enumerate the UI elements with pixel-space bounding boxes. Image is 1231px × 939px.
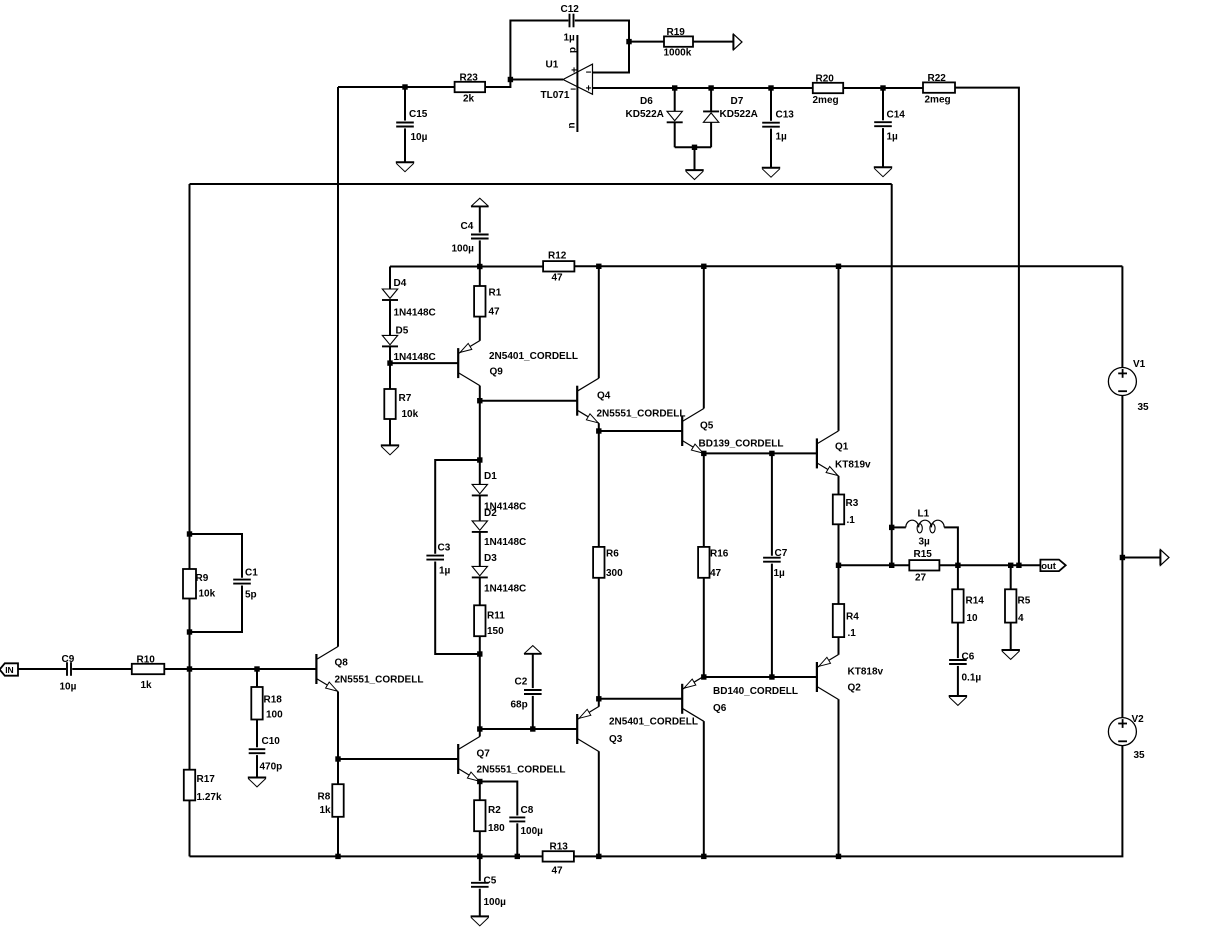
pin arrow at supply midpoint [1160,550,1169,566]
svg-text:C15: C15 [409,109,428,120]
diode D2 [472,508,526,548]
diode D1 [472,471,526,513]
wire node to Q9 base [390,362,458,364]
node C7 top [769,451,774,456]
node D6 top [672,85,677,90]
svg-text:Q2: Q2 [848,683,862,694]
svg-text:C9: C9 [62,654,75,665]
svg-text:V2: V2 [1132,714,1145,725]
wire Q7 collector vertical [479,729,481,737]
wire Q1 emitter to R3 [838,476,840,495]
node R15-L1 right [955,563,960,568]
voltage source V1 [1108,359,1149,413]
svg-text:D1: D1 [484,471,497,482]
svg-text:47: 47 [489,307,501,318]
svg-text:1k: 1k [320,805,332,816]
svg-text:R17: R17 [197,774,216,785]
svg-text:R9: R9 [196,573,209,584]
svg-text:C10: C10 [262,736,281,747]
svg-text:10µ: 10µ [411,132,428,143]
node rail-Q1 collector [836,264,841,269]
wire R10 to Q8 base [164,668,316,670]
wire C12 to op-amp inverting input [575,21,629,73]
wire down to C3 node [479,401,481,460]
capacitor C2 [511,677,542,711]
svg-text:R10: R10 [137,655,156,666]
svg-text:Q1: Q1 [835,442,849,453]
svg-text:TL071: TL071 [541,90,570,101]
node R9-C1 top [187,531,192,536]
svg-text:D5: D5 [396,326,409,337]
svg-text:2N5401_CORDELL: 2N5401_CORDELL [609,717,698,728]
svg-text:C14: C14 [887,110,906,121]
wire Q8 emitter vertical [337,692,339,760]
svg-text:10k: 10k [199,589,216,600]
diode D6 [626,96,683,122]
svg-text:470p: 470p [260,762,283,773]
svg-text:R16: R16 [710,549,729,560]
svg-text:.1: .1 [848,628,857,639]
svg-text:R3: R3 [846,498,859,509]
svg-text:1.27k: 1.27k [197,792,222,803]
resistor R8 [318,784,344,817]
wire op-amp inverting input [510,79,563,81]
wire diode pair to ground [694,147,696,169]
node Q6 emitter [701,674,706,679]
wire Q7 emitter to C8 [480,782,518,816]
power arrow above C4 [471,198,489,206]
node rail-Q4 collector [596,264,601,269]
wire C13 lower stem [770,129,772,168]
node D7 top [708,85,713,90]
capacitor C7 [763,548,788,579]
wire R1 to Q9 emitter [479,317,481,341]
wire R7 to ground [389,419,391,445]
svg-text:47: 47 [710,568,722,579]
svg-text:100µ: 100µ [452,244,475,255]
capacitor C14 [874,110,905,143]
wire R6 lower stem [598,578,600,699]
node R18 top [254,666,259,671]
svg-text:Q6: Q6 [713,703,727,714]
wire R1 upper stem [479,267,481,287]
wire R19 to output pin [693,41,733,43]
capacitor C13 [762,110,794,143]
svg-text:BD139_CORDELL: BD139_CORDELL [699,439,784,450]
svg-text:R5: R5 [1018,596,1031,607]
wire C1 bottom branch [190,586,243,633]
wire feedback loop up and over C12 [510,21,568,80]
wire C4 to rail [479,240,481,266]
svg-text:1000k: 1000k [664,48,692,59]
wire R4 upper stem [838,565,840,604]
wire joining D6 and D7 bottoms [675,146,711,148]
svg-text:2meg: 2meg [925,95,951,106]
wire R11 to C3 node [479,636,481,654]
svg-text:R12: R12 [548,251,567,262]
wire R6 upper stem [598,431,600,547]
svg-text:−: − [570,84,576,95]
wire Q4 collector vertical [598,266,600,378]
wire Q4 emitter to Q5 base [599,430,682,432]
transistor Q4 [577,378,685,423]
wire D5 to R7 node [389,346,391,363]
ground below C6 [949,696,967,705]
wire C14 lower stem [882,128,884,167]
voltage source V2 [1108,714,1145,761]
wire R20 to C14 [843,87,923,89]
node rail-R8 [335,854,340,859]
wire D1 anode stem [479,460,481,484]
wire D6 anode stem [674,88,676,111]
wire D6 cathode stem [674,122,676,147]
svg-text:C3: C3 [438,543,451,554]
wire mid node to pin arrow [1122,557,1160,559]
svg-text:BD140_CORDELL: BD140_CORDELL [713,686,798,697]
svg-text:D3: D3 [484,553,497,564]
wire bottom rail left of R13 [190,855,543,857]
svg-text:2N5551_CORDELL: 2N5551_CORDELL [335,675,424,686]
wire R14 upper stem [957,565,959,589]
svg-text:150: 150 [487,626,504,637]
wire R4 to Q2 emitter [838,637,840,655]
wire C8 to bottom rail [516,823,518,856]
wire R18 to C10 [256,720,258,748]
transistor Q8 [316,647,423,692]
wire Q3 emitter vertical [598,699,600,707]
svg-text:C2: C2 [515,677,528,688]
capacitor C15 [396,109,428,143]
resistor R2 [474,800,505,834]
ground below R7 [381,445,399,454]
node rail-C4 [477,264,482,269]
transistor Q3 [577,707,698,752]
wire second loop left vertical [189,184,191,534]
op-amp U1 TL071 [541,47,593,129]
wire C10 to ground [256,755,258,777]
svg-text:+: + [586,83,592,94]
transistor Q6 [682,676,798,721]
svg-text:L1: L1 [918,509,930,520]
svg-text:1µ: 1µ [774,568,786,579]
svg-text:2N5551_CORDELL: 2N5551_CORDELL [597,409,686,420]
svg-text:C12: C12 [561,4,580,15]
svg-text:C5: C5 [484,876,497,887]
svg-text:−: − [586,67,592,78]
svg-text:10: 10 [967,613,979,624]
ground below R5 [1002,650,1020,659]
node L1 left [889,525,894,530]
node at op-amp feedback jog [508,77,513,82]
svg-text:D6: D6 [640,96,653,107]
svg-text:R23: R23 [460,73,479,84]
svg-text:2k: 2k [463,94,475,105]
wire down to Q7 collector node [479,654,481,729]
diode D7 [703,96,758,122]
pin IN [0,663,18,675]
wire C2 upper stem [532,654,534,688]
resistor R3 [833,495,859,527]
svg-text:1µ: 1µ [776,132,788,143]
node C13 top [768,85,773,90]
svg-text:2N5551_CORDELL: 2N5551_CORDELL [477,765,566,776]
svg-text:C8: C8 [521,805,534,816]
svg-text:1k: 1k [141,680,153,691]
svg-text:KT819v: KT819v [835,460,871,471]
svg-text:p: p [568,47,579,53]
resistor R1 [474,286,502,318]
ground below C10 [248,778,266,787]
wire Q3 emitter node to Q6 base [599,698,682,700]
svg-text:R13: R13 [550,842,569,853]
wire D1 to D2 [479,495,481,521]
wire R7 upper stem [389,363,391,389]
node supply midpoint [1120,555,1125,560]
wire to input node [189,632,191,669]
svg-text:1µ: 1µ [564,33,576,44]
svg-text:68p: 68p [511,700,528,711]
wire Q5 emitter to Q1 base [704,452,817,454]
node C14 top [880,85,885,90]
svg-text:C13: C13 [776,110,795,121]
svg-text:R4: R4 [846,612,859,623]
wire L1 left lead [892,526,906,528]
wire R5 upper stem [1010,565,1012,589]
capacitor C4 [452,221,489,255]
wire R8 upper stem [337,759,339,784]
svg-text:100: 100 [266,710,283,721]
node Q3 emitter R6 [596,696,601,701]
node Q7 collector row left [477,726,482,731]
resistor R5 [1005,589,1031,624]
wire bottom rail right of R13 [574,745,1123,856]
svg-text:out: out [1041,561,1057,572]
node C7 bottom [769,674,774,679]
svg-text:Q8: Q8 [335,658,349,669]
wire Q5 collector vertical [703,266,705,408]
wire C15 upper stem [404,87,406,121]
wire C15 lower stem [404,128,406,161]
node Q5 emitter [701,451,706,456]
svg-text:35: 35 [1134,750,1146,761]
svg-text:Q9: Q9 [490,367,504,378]
resistor R15 [909,549,939,584]
ground below C13 [762,168,780,177]
wire Q6 collector vertical [703,721,705,856]
transistor Q9 [458,341,578,386]
diode D3 [472,553,526,595]
svg-text:R2: R2 [488,805,501,816]
resistor R13 [543,842,574,877]
wire R9 upper stem [189,534,191,569]
svg-text:1µ: 1µ [439,566,451,577]
wire R17 upper stem [189,669,191,770]
wire C5 to ground [479,889,481,916]
svg-text:10µ: 10µ [60,682,77,693]
svg-text:1N4148C: 1N4148C [484,584,526,595]
inductor L1 [906,509,944,548]
node Q4 emitter [596,428,601,433]
svg-text:R14: R14 [966,596,985,607]
resistor R11 [474,605,505,637]
capacitor C12 [561,4,580,44]
svg-text:27: 27 [915,573,927,584]
node C15 top [402,84,407,89]
resistor R7 [384,389,418,420]
wire C2 lower stem [532,696,534,729]
svg-text:1N4148C: 1N4148C [484,537,526,548]
svg-text:300: 300 [606,568,623,579]
wire R15 to out pin [939,564,1040,566]
svg-text:C1: C1 [245,568,258,579]
svg-text:KD522A: KD522A [720,109,758,120]
wire L1 right lead down [944,527,958,565]
wire left feedback loop vertical [337,87,339,647]
node input summing [187,666,192,671]
wire mid node to V2 [1121,558,1123,718]
node rail-Q2 collector [836,854,841,859]
svg-text:R7: R7 [399,393,412,404]
wire D7 cathode stem [710,88,712,111]
wire C3 top branch [435,460,480,554]
power arrow above C2 [524,646,542,654]
transistor Q7 [458,737,565,782]
wire C7 upper stem [771,453,773,555]
svg-text:R19: R19 [667,27,686,38]
svg-text:2meg: 2meg [813,95,839,106]
node C3 bottom [477,651,482,656]
svg-text:47: 47 [552,866,564,877]
svg-text:10k: 10k [402,409,419,420]
diode D5 [382,326,436,364]
svg-text:R1: R1 [489,288,502,299]
svg-text:D4: D4 [394,278,407,289]
capacitor C6 [949,652,981,684]
resistor R10 [132,655,165,692]
diode D4 [382,278,436,319]
wire C5 upper stem [479,856,481,881]
wire R22 down to out node [955,88,1019,566]
wire Q9 collector vertical [479,386,481,401]
svg-text:R8: R8 [318,792,331,803]
node R3-R4 output [836,563,841,568]
wire power arrow to C4 [479,207,481,233]
wire Q9 collector to Q4 base [480,400,577,402]
svg-text:+: + [571,65,577,76]
resistor R16 [698,547,729,579]
svg-text:5p: 5p [245,590,257,601]
svg-text:35: 35 [1138,402,1150,413]
wire D4 to D5 [389,300,391,335]
svg-text:R6: R6 [606,549,619,560]
resistor R22 [923,73,955,106]
svg-text:Q7: Q7 [477,749,491,760]
wire V1 to mid node [1121,396,1123,558]
wire Q6 emitter row to Q2 base [704,676,817,678]
wire R8 to bottom rail [337,817,339,857]
capacitor C10 [249,736,283,773]
svg-text:Q3: Q3 [609,734,623,745]
svg-text:2N5401_CORDELL: 2N5401_CORDELL [489,351,578,362]
wire Q2 collector vertical [838,699,840,856]
wire op-amp noninverting input rail [593,87,813,89]
svg-text:D2: D2 [484,508,497,519]
wire R16 lower stem [703,578,705,677]
wire from left loop to R23 [338,86,455,88]
wire rail to V1 [1121,266,1123,367]
wire D4 anode stem [389,267,391,290]
wire R3 to out node [838,524,840,565]
node Q8 emitter [335,756,340,761]
node Q7 emitter [477,779,482,784]
resistor R23 [455,73,486,105]
wire Q8 emitter to Q7 base [338,758,458,760]
wire D3 to R11 [479,577,481,605]
wire node to R19 [629,41,664,43]
wire Q3 collector vertical [598,751,600,856]
resistor R14 [952,589,984,624]
wire C1 top branch [190,534,243,578]
node C2 bottom [530,726,535,731]
wire R2 to bottom rail [479,831,481,856]
wire C3 bottom branch [435,562,480,655]
node rail-Q3 collector [596,854,601,859]
node R9-C1 bottom [187,629,192,634]
svg-text:100µ: 100µ [484,897,507,908]
svg-text:4: 4 [1018,613,1024,624]
op-amp U1 power line [576,35,578,132]
pin out [1040,560,1065,573]
svg-text:C7: C7 [775,548,788,559]
node rail-Q5 collector [701,264,706,269]
wire out row to R15 [839,564,910,566]
ground below C14 [874,167,892,176]
svg-text:D7: D7 [731,96,744,107]
svg-text:3µ: 3µ [919,537,931,548]
wire top rail right of R12 [574,265,1122,267]
node D6-D7 junction [692,145,697,150]
wire R18 upper stem [256,669,258,687]
svg-text:R18: R18 [264,695,283,706]
resistor R17 [184,770,222,803]
wire R9 lower stem [189,599,191,633]
capacitor C8 [509,805,543,837]
transistor Q1 [817,431,871,476]
svg-text:1N4148C: 1N4148C [394,308,436,319]
svg-text:C4: C4 [461,221,474,232]
resistor R19 [664,27,694,59]
node D5-R7 [387,360,392,365]
node C3 top [477,457,482,462]
node feedback tap [1016,563,1021,568]
svg-text:1N4148C: 1N4148C [394,352,436,363]
node at R19 tap [626,39,631,44]
svg-text:V1: V1 [1133,359,1146,370]
node R5 top [1008,563,1013,568]
resistor R20 [813,74,844,107]
resistor R18 [251,687,283,721]
svg-text:R15: R15 [914,549,933,560]
node rail-C8 [515,854,520,859]
svg-text:R11: R11 [487,611,505,622]
wire R22 output loop vertical [891,184,893,565]
wire R5 to ground [1010,623,1012,650]
svg-text:KT818v: KT818v [848,667,884,678]
wire D7 anode stem [710,122,712,147]
svg-text:n: n [567,122,578,128]
ground below C5 [471,916,489,925]
wire C14 upper stem [882,88,884,120]
